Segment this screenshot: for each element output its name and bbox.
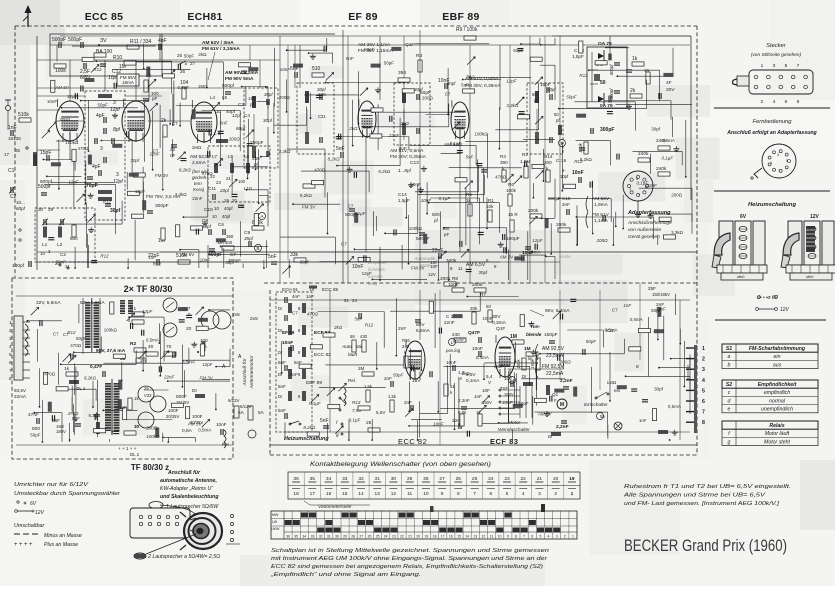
svg-text:e: e bbox=[728, 407, 731, 413]
svg-text:UKW: UKW bbox=[271, 527, 280, 531]
svg-text:L5: L5 bbox=[222, 95, 228, 100]
svg-text:0,47F: 0,47F bbox=[90, 364, 102, 370]
svg-text:2,2nF: 2,2nF bbox=[556, 424, 569, 430]
svg-text:FM-Scharfabstimmung: FM-Scharfabstimmung bbox=[749, 346, 806, 352]
svg-text:100k: 100k bbox=[446, 258, 457, 264]
svg-text:50pF: 50pF bbox=[566, 95, 577, 100]
svg-text:FM 3V: FM 3V bbox=[200, 376, 214, 381]
svg-text:8: 8 bbox=[702, 420, 705, 426]
svg-text:C3: C3 bbox=[238, 102, 244, 107]
svg-text:21: 21 bbox=[408, 535, 412, 539]
svg-text:3,3kΩ: 3,3kΩ bbox=[279, 149, 292, 154]
svg-text:30V: 30V bbox=[492, 314, 501, 320]
svg-text:27: 27 bbox=[359, 535, 363, 539]
svg-text:8pf: 8pf bbox=[113, 127, 121, 133]
svg-text:500pF: 500pF bbox=[416, 236, 430, 242]
svg-text:4: 4 bbox=[548, 535, 550, 539]
svg-text:500: 500 bbox=[32, 426, 40, 432]
svg-text:c: c bbox=[728, 390, 731, 396]
svg-text:1: 1 bbox=[9, 320, 12, 325]
svg-text:4F: 4F bbox=[666, 80, 672, 86]
svg-text:4: 4 bbox=[522, 491, 525, 497]
svg-text:13: 13 bbox=[375, 491, 381, 497]
svg-text:25: 25 bbox=[366, 420, 372, 426]
svg-text:6: 6 bbox=[531, 535, 533, 539]
svg-text:EF 89: EF 89 bbox=[348, 11, 378, 23]
svg-text:35pf: 35pf bbox=[244, 236, 254, 241]
svg-text:12V: 12V bbox=[428, 272, 436, 277]
svg-text:1: 1 bbox=[770, 161, 772, 165]
svg-text:200Ω: 200Ω bbox=[422, 95, 434, 100]
svg-text:27: 27 bbox=[439, 476, 445, 482]
svg-text:4pF: 4pF bbox=[92, 164, 101, 170]
svg-text:5nF: 5nF bbox=[220, 121, 228, 126]
svg-text:17: 17 bbox=[441, 535, 445, 539]
svg-text:blende: blende bbox=[526, 332, 542, 338]
svg-text:6/12V: 6/12V bbox=[228, 398, 240, 403]
svg-text:AM 52,5V: AM 52,5V bbox=[190, 154, 212, 160]
svg-text:35: 35 bbox=[15, 148, 21, 153]
svg-text:300pF: 300pF bbox=[600, 127, 614, 133]
svg-text:50pF: 50pF bbox=[651, 308, 662, 313]
svg-text:22nF: 22nF bbox=[388, 133, 400, 138]
svg-text:Empfind-: Empfind- bbox=[368, 260, 388, 266]
svg-text:wtb0: wtb0 bbox=[737, 275, 744, 279]
svg-text:4pF: 4pF bbox=[96, 113, 105, 119]
svg-text:100kΩ: 100kΩ bbox=[65, 140, 79, 145]
svg-text:7: 7 bbox=[778, 169, 780, 173]
svg-text:470Ω: 470Ω bbox=[78, 146, 90, 151]
svg-text:0,1µF: 0,1µF bbox=[349, 417, 361, 422]
svg-text:2 Lautsprecher a 5Ω/4W= 2,5Ω: 2 Lautsprecher a 5Ω/4W= 2,5Ω bbox=[147, 554, 220, 560]
svg-text:20: 20 bbox=[232, 198, 237, 203]
svg-text:R11 / 334: R11 / 334 bbox=[130, 39, 152, 45]
svg-text:Anschluß für: Anschluß für bbox=[242, 358, 248, 386]
svg-text:AM 6V: AM 6V bbox=[54, 85, 70, 90]
svg-text:Rel.: Rel. bbox=[348, 378, 356, 383]
svg-text:2kΩ: 2kΩ bbox=[348, 126, 358, 131]
svg-text:6/12V: 6/12V bbox=[240, 404, 252, 409]
svg-text:15pF: 15pF bbox=[40, 150, 51, 156]
svg-text:18mA: 18mA bbox=[122, 80, 135, 85]
svg-text:2: 2 bbox=[761, 99, 764, 105]
svg-text:7: 7 bbox=[473, 491, 476, 497]
svg-text:54: 54 bbox=[510, 378, 515, 383]
svg-text:FM 3V: FM 3V bbox=[188, 421, 202, 426]
svg-text:50pF: 50pF bbox=[513, 48, 524, 53]
svg-text:390: 390 bbox=[500, 160, 508, 165]
svg-text:4nF: 4nF bbox=[158, 38, 167, 44]
svg-text:10nF: 10nF bbox=[446, 360, 457, 365]
svg-text:10nF: 10nF bbox=[352, 264, 363, 270]
svg-text:FM 90V 5mA: FM 90V 5mA bbox=[225, 76, 254, 82]
svg-text:32: 32 bbox=[358, 476, 364, 482]
svg-text:1,5pF: 1,5pF bbox=[572, 54, 584, 59]
svg-text:470Ω: 470Ω bbox=[314, 168, 326, 173]
svg-text:2nF: 2nF bbox=[384, 376, 392, 381]
svg-text:R14: R14 bbox=[544, 154, 553, 159]
svg-text:200Ω: 200Ω bbox=[146, 426, 158, 431]
svg-text:40pf: 40pf bbox=[222, 214, 231, 219]
svg-text:S1: S1 bbox=[726, 346, 732, 352]
svg-text:5nF: 5nF bbox=[346, 56, 354, 61]
svg-text:0,3mA: 0,3mA bbox=[492, 320, 507, 326]
svg-text:30pf: 30pf bbox=[130, 158, 140, 163]
svg-text:14: 14 bbox=[358, 491, 364, 497]
svg-text:10: 10 bbox=[498, 535, 502, 539]
svg-text:6V: 6V bbox=[740, 214, 747, 220]
svg-text:1nF: 1nF bbox=[623, 303, 631, 308]
svg-text:50: 50 bbox=[532, 92, 537, 97]
svg-text:200Ω: 200Ω bbox=[58, 117, 71, 122]
svg-text:1nF: 1nF bbox=[639, 418, 647, 423]
svg-text:FM 30V, 0,35mA: FM 30V, 0,35mA bbox=[465, 83, 501, 89]
svg-text:F: F bbox=[188, 312, 191, 317]
svg-text:FM 3V: FM 3V bbox=[155, 173, 168, 178]
svg-text:150k: 150k bbox=[530, 359, 535, 369]
svg-text:1nF: 1nF bbox=[306, 294, 314, 299]
svg-text:OL 1: OL 1 bbox=[76, 386, 86, 391]
svg-text:4: 4 bbox=[702, 378, 705, 384]
svg-text:C1: C1 bbox=[8, 168, 15, 174]
svg-text:10pf: 10pf bbox=[560, 174, 569, 179]
svg-text:200Ω: 200Ω bbox=[559, 360, 572, 365]
svg-text:Kontaktbelegung Wellenschalte: Kontaktbelegung Wellenschalter (von oben… bbox=[310, 462, 491, 468]
svg-text:C7: C7 bbox=[341, 241, 347, 246]
svg-text:Umsteckbar durch Spannungswähl: Umsteckbar durch Spannungswähler bbox=[14, 491, 121, 497]
svg-text:16: 16 bbox=[326, 491, 332, 497]
svg-text:TF 80/30 z: TF 80/30 z bbox=[131, 463, 169, 472]
svg-text:22nF: 22nF bbox=[646, 183, 658, 188]
svg-text:Alle Spannungen und Strme bei: Alle Spannungen und Strme bei UB= 6,5V bbox=[623, 493, 767, 499]
svg-text:V33: V33 bbox=[144, 393, 152, 398]
svg-text:BECKER Grand Prix (1960): BECKER Grand Prix (1960) bbox=[624, 536, 787, 555]
svg-text:50pF: 50pF bbox=[518, 401, 529, 406]
svg-text:R12: R12 bbox=[466, 75, 475, 80]
svg-text:20: 20 bbox=[416, 535, 420, 539]
svg-text:1,5pF: 1,5pF bbox=[398, 198, 410, 203]
svg-text:12V: 12V bbox=[780, 307, 790, 313]
svg-text:6V: 6V bbox=[30, 501, 37, 507]
svg-text:3: 3 bbox=[100, 146, 103, 152]
svg-text:1,5k: 1,5k bbox=[364, 384, 373, 389]
svg-text:A: A bbox=[260, 214, 263, 219]
svg-text:R12: R12 bbox=[574, 159, 583, 164]
svg-text:4: 4 bbox=[9, 344, 12, 349]
svg-text:1,9mA: 1,9mA bbox=[594, 202, 609, 208]
svg-text:B: B bbox=[256, 246, 259, 251]
svg-text:21: 21 bbox=[226, 176, 231, 181]
svg-text:R12: R12 bbox=[93, 67, 102, 72]
svg-text:28: 28 bbox=[423, 476, 429, 482]
svg-text:3: 3 bbox=[116, 172, 119, 178]
svg-text:mit Instrument AEG UM 100k/V: mit Instrument AEG UM 100k/V ohne Eingan… bbox=[271, 556, 548, 562]
svg-text:7: 7 bbox=[523, 535, 525, 539]
svg-text:0,1µF: 0,1µF bbox=[450, 141, 462, 146]
svg-text:0,5mA: 0,5mA bbox=[182, 360, 195, 365]
svg-text:2k: 2k bbox=[161, 118, 167, 124]
svg-text:5nF: 5nF bbox=[461, 82, 469, 87]
svg-text:1: 1 bbox=[761, 63, 764, 69]
svg-text:51: 51 bbox=[344, 298, 349, 303]
svg-text:R7: R7 bbox=[480, 292, 486, 298]
svg-text:C7: C7 bbox=[612, 307, 618, 312]
svg-text:12pF: 12pF bbox=[68, 179, 79, 184]
svg-text:ECH 81: ECH 81 bbox=[282, 287, 299, 292]
svg-text:6: 6 bbox=[785, 99, 788, 105]
svg-text:5: 5 bbox=[9, 352, 12, 357]
svg-text:33k: 33k bbox=[290, 252, 299, 258]
svg-text:30: 30 bbox=[391, 476, 397, 482]
svg-text:50: 50 bbox=[600, 80, 606, 86]
svg-text:10nF: 10nF bbox=[282, 340, 293, 346]
svg-text:1k: 1k bbox=[134, 396, 139, 401]
svg-text:+: + bbox=[14, 542, 18, 548]
svg-text:23: 23 bbox=[504, 476, 510, 482]
svg-text:10nF: 10nF bbox=[433, 422, 444, 427]
svg-text:22: 22 bbox=[400, 535, 404, 539]
svg-text:430: 430 bbox=[360, 334, 368, 339]
svg-text:20V: 20V bbox=[666, 87, 675, 93]
svg-text:22nF: 22nF bbox=[192, 196, 203, 201]
svg-text:23: 23 bbox=[216, 180, 221, 185]
svg-text:wtb0: wtb0 bbox=[806, 275, 813, 279]
svg-text:Umschaltbar: Umschaltbar bbox=[14, 523, 44, 529]
svg-text:KW-Adapter „Reims U“: KW-Adapter „Reims U“ bbox=[160, 486, 213, 492]
svg-text:0,1µF: 0,1µF bbox=[309, 401, 321, 406]
svg-text:1MΩ: 1MΩ bbox=[607, 380, 617, 385]
svg-text:30: 30 bbox=[335, 535, 339, 539]
svg-text:93,5V: 93,5V bbox=[14, 388, 27, 393]
svg-text:50pF: 50pF bbox=[384, 60, 395, 65]
svg-text:15pF: 15pF bbox=[540, 82, 551, 87]
svg-text:1nF: 1nF bbox=[474, 394, 482, 399]
svg-text:MW: MW bbox=[272, 513, 279, 517]
svg-text:25: 25 bbox=[472, 476, 478, 482]
svg-text:100: 100 bbox=[442, 226, 450, 231]
svg-text:2: 2 bbox=[9, 328, 12, 333]
svg-text:25: 25 bbox=[376, 535, 380, 539]
svg-text:8,2kΩ: 8,2kΩ bbox=[89, 413, 102, 418]
svg-text:2nF: 2nF bbox=[404, 400, 412, 405]
svg-text:AM 6,5V: AM 6,5V bbox=[466, 262, 486, 268]
svg-text:70: 70 bbox=[166, 344, 172, 350]
svg-text:4nF: 4nF bbox=[292, 294, 300, 299]
svg-text:200Ω: 200Ω bbox=[279, 95, 291, 100]
svg-text:8,2kΩ: 8,2kΩ bbox=[378, 169, 391, 174]
svg-text:C7: C7 bbox=[445, 92, 451, 97]
svg-text:R13: R13 bbox=[352, 400, 361, 405]
svg-text:0,5mA: 0,5mA bbox=[605, 327, 618, 332]
svg-text:R8: R8 bbox=[452, 276, 458, 281]
svg-text:1MΩ: 1MΩ bbox=[192, 145, 202, 150]
svg-text:R12: R12 bbox=[67, 330, 76, 335]
svg-text:3: 3 bbox=[556, 535, 558, 539]
svg-text:ECC 85: ECC 85 bbox=[85, 11, 124, 23]
svg-text:1nF: 1nF bbox=[148, 255, 156, 260]
svg-text:1,1mA: 1,1mA bbox=[594, 218, 609, 224]
svg-text:Relais: Relais bbox=[769, 423, 784, 429]
svg-text:0A 79: 0A 79 bbox=[600, 103, 613, 109]
svg-text:200: 200 bbox=[544, 160, 552, 165]
svg-text:BA 100: BA 100 bbox=[96, 49, 112, 55]
svg-text:2kΩ: 2kΩ bbox=[462, 371, 471, 376]
svg-text:100k: 100k bbox=[506, 188, 517, 193]
svg-text:31: 31 bbox=[65, 264, 70, 269]
svg-text:R2: R2 bbox=[130, 341, 136, 347]
svg-text:10nF: 10nF bbox=[572, 170, 584, 176]
svg-text:R3: R3 bbox=[416, 53, 422, 59]
svg-text:Q47F: Q47F bbox=[468, 330, 480, 336]
svg-text:1M: 1M bbox=[510, 334, 517, 340]
svg-text:19: 19 bbox=[425, 535, 429, 539]
svg-text:EF 89: EF 89 bbox=[282, 330, 295, 335]
svg-text:2: 2 bbox=[564, 535, 566, 539]
svg-text:R12: R12 bbox=[100, 254, 109, 259]
svg-text:9: 9 bbox=[441, 491, 444, 497]
svg-text:EBF 89: EBF 89 bbox=[442, 11, 479, 23]
svg-text:pF: pF bbox=[152, 96, 158, 101]
svg-text:10: 10 bbox=[423, 491, 429, 497]
svg-text:40pf: 40pf bbox=[224, 206, 233, 211]
svg-text:0,1µF: 0,1µF bbox=[178, 85, 190, 90]
svg-text:5: 5 bbox=[786, 159, 788, 163]
svg-text:470Ω: 470Ω bbox=[68, 411, 80, 416]
svg-text:5,5mA: 5,5mA bbox=[416, 328, 431, 334]
svg-text:22: 22 bbox=[521, 476, 527, 482]
svg-text:Dr: Dr bbox=[278, 394, 283, 399]
svg-text:2nF: 2nF bbox=[398, 326, 406, 332]
svg-text:AM 36V 1,1mA: AM 36V 1,1mA bbox=[358, 42, 391, 48]
svg-text:8: 8 bbox=[9, 376, 12, 381]
svg-text:2kΩ: 2kΩ bbox=[400, 121, 410, 126]
svg-text:C7: C7 bbox=[172, 121, 178, 126]
svg-text:3: 3 bbox=[777, 153, 779, 157]
svg-text:50pF: 50pF bbox=[393, 372, 404, 377]
svg-text:12pF: 12pF bbox=[362, 271, 373, 276]
svg-text:20pf: 20pf bbox=[219, 188, 230, 193]
svg-text:250pF: 250pF bbox=[250, 140, 264, 146]
svg-text:300pf: 300pf bbox=[609, 64, 614, 76]
svg-text:34: 34 bbox=[326, 476, 332, 482]
svg-text:200Ω: 200Ω bbox=[671, 193, 683, 198]
svg-text:+ + 1 + +: + + 1 + + bbox=[118, 446, 137, 451]
svg-text:C11: C11 bbox=[208, 186, 217, 191]
svg-text:4: 4 bbox=[773, 99, 776, 105]
svg-text:25F: 25F bbox=[52, 418, 60, 423]
svg-text:40: 40 bbox=[148, 344, 154, 350]
svg-text:Heizumschaltung: Heizumschaltung bbox=[284, 436, 329, 442]
svg-text:11: 11 bbox=[407, 491, 412, 497]
svg-text:10nF: 10nF bbox=[482, 316, 493, 321]
svg-text:3,3kΩ: 3,3kΩ bbox=[506, 103, 519, 108]
svg-text:10...: 10... bbox=[16, 200, 25, 205]
svg-text:und Skalenbeleuchtung: und Skalenbeleuchtung bbox=[160, 494, 219, 500]
svg-text:8,2kΩ: 8,2kΩ bbox=[300, 193, 313, 198]
svg-text:Anschluß für: Anschluß für bbox=[167, 470, 201, 476]
svg-text:14: 14 bbox=[465, 535, 469, 539]
svg-text:(von Stiftseite gesehen): (von Stiftseite gesehen) bbox=[751, 52, 802, 58]
svg-text:6: 6 bbox=[702, 399, 705, 405]
svg-text:20/25V: 20/25V bbox=[166, 414, 179, 419]
svg-text:pos.log: pos.log bbox=[445, 348, 461, 353]
svg-text:0,1mA: 0,1mA bbox=[466, 378, 480, 383]
svg-text:1: 1 bbox=[629, 187, 631, 191]
svg-text:12V: 12V bbox=[35, 510, 45, 516]
svg-text:22nF: 22nF bbox=[444, 320, 455, 325]
svg-text:3: 3 bbox=[9, 336, 12, 341]
svg-text:Heizumschaltung: Heizumschaltung bbox=[748, 202, 796, 208]
svg-text:Motor steht: Motor steht bbox=[764, 439, 791, 445]
svg-text:150V: 150V bbox=[482, 400, 492, 405]
svg-text:394: 394 bbox=[398, 70, 406, 76]
svg-text:Gerät gesehen: Gerät gesehen bbox=[628, 234, 660, 240]
svg-text:2kΩ: 2kΩ bbox=[333, 325, 343, 330]
svg-text:12pF: 12pF bbox=[202, 362, 213, 367]
svg-text:8,2kΩ: 8,2kΩ bbox=[179, 167, 192, 172]
svg-text:3: 3 bbox=[113, 100, 116, 106]
svg-text:24: 24 bbox=[488, 476, 494, 482]
svg-text:ECC 85: ECC 85 bbox=[322, 287, 339, 292]
svg-text:30pf: 30pf bbox=[414, 87, 423, 92]
svg-text:läuft: läuft bbox=[348, 352, 358, 358]
svg-text:19: 19 bbox=[569, 476, 575, 482]
svg-text:C2: C2 bbox=[60, 252, 66, 257]
svg-text:36: 36 bbox=[293, 476, 299, 482]
svg-text:35: 35 bbox=[294, 535, 298, 539]
svg-text:F: F bbox=[554, 398, 557, 403]
svg-text:200Ω: 200Ω bbox=[228, 137, 241, 142]
svg-text:tem: tem bbox=[194, 181, 202, 186]
svg-text:g: g bbox=[728, 439, 731, 445]
svg-text:50: 50 bbox=[554, 112, 559, 117]
svg-text:1: 1 bbox=[571, 491, 574, 497]
svg-text:Stecker: Stecker bbox=[766, 43, 787, 49]
svg-text:3: 3 bbox=[773, 63, 776, 69]
svg-text:10nF: 10nF bbox=[421, 198, 432, 203]
svg-text:2kΩ: 2kΩ bbox=[198, 52, 207, 57]
svg-text:R12: R12 bbox=[365, 323, 374, 328]
svg-text:10: 10 bbox=[216, 109, 222, 114]
svg-text:5nF: 5nF bbox=[290, 372, 298, 377]
svg-text:10nF: 10nF bbox=[455, 337, 466, 342]
svg-text:33: 33 bbox=[342, 476, 348, 482]
svg-text:Ruhestrom fr T1 und T2 bei UB: Ruhestrom fr T1 und T2 bei UB= 6,5V eing… bbox=[624, 484, 791, 490]
svg-text:15: 15 bbox=[342, 491, 348, 497]
svg-text:11: 11 bbox=[458, 266, 463, 271]
svg-text:240k: 240k bbox=[638, 151, 649, 157]
svg-text:200k: 200k bbox=[472, 282, 483, 288]
svg-text:58: 58 bbox=[350, 334, 355, 339]
svg-text:12pF: 12pF bbox=[135, 189, 146, 194]
svg-text:60pf: 60pf bbox=[16, 206, 26, 211]
svg-text:240k: 240k bbox=[656, 166, 667, 172]
svg-text:Plus an Masse: Plus an Masse bbox=[44, 542, 78, 548]
svg-text:C6: C6 bbox=[218, 222, 224, 227]
svg-text:a: a bbox=[728, 354, 731, 360]
svg-text:R9 / 100k: R9 / 100k bbox=[456, 27, 478, 33]
svg-text:470Ω: 470Ω bbox=[44, 372, 56, 377]
svg-text:400pF: 400pF bbox=[208, 252, 222, 258]
svg-text:18: 18 bbox=[433, 535, 437, 539]
svg-text:22,5mA: 22,5mA bbox=[546, 371, 564, 377]
svg-text:ECH81: ECH81 bbox=[187, 11, 222, 23]
svg-text:100k: 100k bbox=[448, 282, 459, 287]
svg-text:Aufw: Aufw bbox=[559, 254, 571, 260]
svg-text:6: 6 bbox=[489, 491, 492, 497]
svg-text:2,2nF: 2,2nF bbox=[458, 398, 470, 403]
svg-text:7: 7 bbox=[638, 194, 640, 198]
